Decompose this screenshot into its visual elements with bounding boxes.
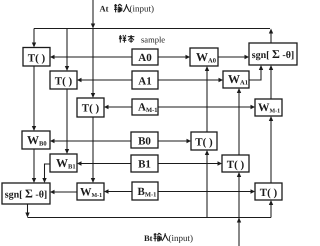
svg-text:WM-1: WM-1: [258, 102, 280, 115]
wire bus drop to T2: [65, 29, 69, 72]
delay box T5: [222, 155, 249, 172]
svg-text:AM-1: AM-1: [138, 102, 158, 115]
wire BM-1 to T6: [158, 189, 255, 193]
wire sgn2 output down: [25, 204, 29, 218]
threshold unit sgn top right: [249, 43, 297, 65]
wire A1 to T2: [77, 78, 132, 82]
svg-text:B1: B1: [138, 159, 151, 171]
sample box A0: [132, 49, 158, 65]
svg-text:(input): (input): [169, 233, 194, 243]
node At label: [100, 4, 155, 14]
delay box T2: [50, 71, 77, 89]
svg-text:T( ): T( ): [227, 159, 245, 171]
wire WA1 elbow to sgn1 bottom: [249, 65, 263, 80]
sample box BM-1: [132, 182, 158, 200]
svg-text:T( ): T( ): [28, 53, 46, 65]
wire T5 up to WA1: [237, 88, 241, 155]
wire A0 to WA0: [158, 55, 190, 59]
wire T6 up to WM-1 right: [269, 116, 273, 183]
wire WA0 to sgn1: [218, 55, 249, 59]
svg-text:T( ): T( ): [82, 103, 100, 115]
sample box B0: [131, 132, 158, 148]
wire top bus: [34, 28, 270, 30]
svg-text:WA0: WA0: [196, 50, 216, 65]
wire B1 to WB1: [77, 161, 131, 165]
svg-text:WB0: WB0: [27, 133, 47, 148]
sample box B1: [131, 155, 158, 172]
wire T3 down to WM-1 left: [91, 117, 95, 183]
wire bus drop to T1: [32, 29, 36, 48]
wire A1 to WA1: [158, 78, 223, 82]
svg-text:A1: A1: [138, 76, 151, 88]
svg-text:WM-1: WM-1: [80, 187, 102, 200]
wire At input: [91, 0, 95, 29]
delay box T1: [23, 48, 50, 67]
wire T4 down to bottom bus: [205, 150, 209, 218]
threshold unit sgn bottom left: [2, 183, 50, 204]
wire B0 to T4: [158, 139, 191, 143]
svg-text:Bt: Bt: [144, 233, 153, 243]
weight box WB1: [50, 154, 77, 172]
svg-text:WA1: WA1: [228, 72, 248, 87]
weight box WB0: [22, 131, 50, 149]
wire T4 up to WA0: [205, 66, 209, 132]
wire WB0 down to sgn2: [32, 149, 36, 183]
wire bottom bus: [28, 217, 272, 219]
wire AM-1 to T3: [104, 105, 132, 109]
wire WM-1 left to sgn2: [50, 190, 77, 194]
glyph shu (Bt): [154, 233, 162, 241]
svg-text:sample: sample: [141, 35, 165, 45]
svg-text:At: At: [100, 4, 109, 14]
wire WM-1 right up to sgn1 bottom: [269, 65, 273, 99]
wire T2 down to WB1: [65, 89, 69, 154]
wire AM-1 to WM-1 right: [158, 105, 255, 109]
wire bus drop to T3: [91, 29, 95, 99]
wire bottom bus up to T6: [269, 200, 273, 218]
node Bt label: [144, 233, 193, 243]
svg-text:WB1: WB1: [56, 156, 76, 171]
wire T1 down to WB0: [32, 66, 36, 131]
weight box WA0: [190, 48, 218, 66]
delay box T6: [255, 183, 282, 200]
svg-text:BM-1: BM-1: [138, 186, 157, 199]
wire sgn1 output up to bus: [269, 29, 273, 44]
wire BM-1 to WM-1 left: [104, 189, 132, 193]
glyph ru (At): [123, 4, 129, 12]
svg-text:sgn[ Σ -θ]: sgn[ Σ -θ]: [252, 47, 295, 61]
wire B1 to T5: [158, 161, 222, 165]
svg-text:sgn[ Σ -θ]: sgn[ Σ -θ]: [5, 187, 48, 201]
wire Bt input: [237, 218, 241, 246]
svg-text:T( ): T( ): [195, 137, 213, 149]
weight box WM-1 left: [77, 183, 104, 200]
svg-text:A0: A0: [138, 52, 152, 64]
wire T5 down to bottom bus: [237, 172, 241, 218]
wire WB1 elbow to sgn2 top: [42, 164, 50, 183]
svg-text:(input): (input): [130, 4, 155, 14]
glyph yang (sample): [119, 35, 126, 43]
label sample caption: [141, 35, 165, 45]
delay box T4: [191, 132, 217, 150]
glyph shu (At): [114, 4, 122, 12]
glyph ru (Bt): [162, 233, 168, 241]
delay box T3: [77, 98, 104, 117]
svg-text:T( ): T( ): [260, 187, 278, 199]
sample box A1: [132, 71, 158, 89]
wire B0 to WB0: [50, 139, 131, 143]
svg-text:B0: B0: [138, 136, 151, 148]
weight box WA1: [223, 71, 249, 88]
sample box AM-1: [132, 99, 158, 115]
wire A0 to T1: [50, 55, 132, 59]
svg-text:T( ): T( ): [55, 76, 73, 88]
weight box WM-1 right: [255, 99, 282, 116]
glyph ben (sample): [128, 35, 135, 43]
